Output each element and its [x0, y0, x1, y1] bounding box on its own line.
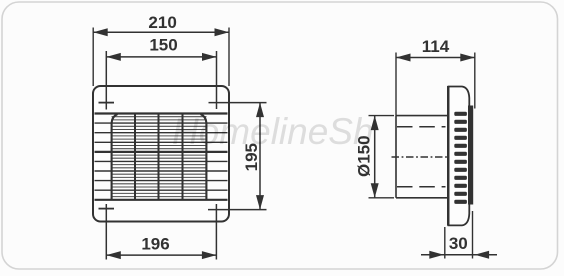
svg-text:30: 30 — [449, 234, 468, 253]
svg-text:114: 114 — [422, 37, 450, 56]
svg-text:196: 196 — [141, 234, 169, 253]
svg-text:150: 150 — [149, 36, 177, 55]
svg-text:210: 210 — [148, 13, 176, 32]
